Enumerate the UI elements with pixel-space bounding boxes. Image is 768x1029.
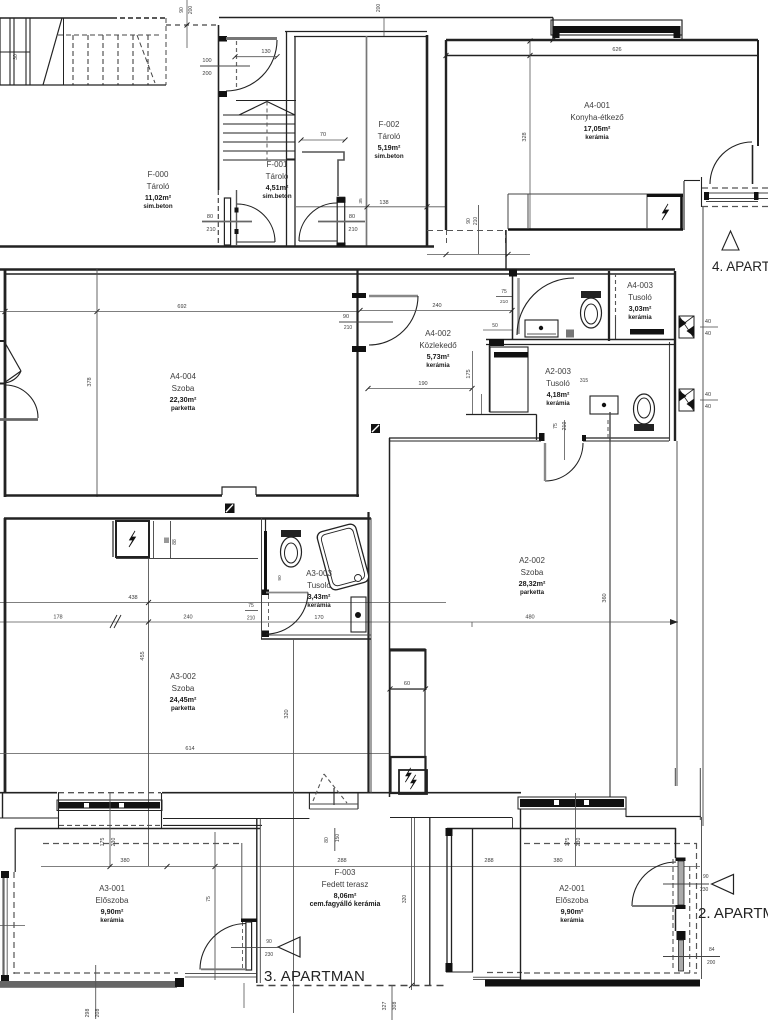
svg-text:F-002: F-002 (379, 120, 400, 129)
svg-text:208: 208 (95, 1009, 101, 1018)
svg-text:A2-003: A2-003 (545, 367, 571, 376)
svg-text:A3-003: A3-003 (306, 569, 332, 578)
svg-text:Előszoba: Előszoba (556, 896, 589, 905)
svg-text:80: 80 (324, 837, 330, 843)
svg-text:Fedett terasz: Fedett terasz (322, 880, 369, 889)
svg-text:80: 80 (349, 214, 355, 220)
svg-text:150: 150 (335, 834, 341, 843)
svg-text:kerámia: kerámia (546, 400, 570, 407)
svg-text:Szoba: Szoba (172, 384, 195, 393)
svg-text:88: 88 (172, 539, 178, 545)
svg-text:Tároló: Tároló (147, 182, 170, 191)
svg-text:308: 308 (392, 1002, 398, 1011)
svg-text:A2-001: A2-001 (559, 884, 585, 893)
svg-text:75: 75 (553, 423, 559, 429)
svg-text:190: 190 (418, 381, 427, 387)
svg-text:A3-002: A3-002 (170, 672, 196, 681)
svg-text:90: 90 (343, 314, 349, 320)
svg-text:210: 210 (500, 299, 508, 305)
svg-text:Közlekedő: Közlekedő (419, 341, 457, 350)
svg-text:230: 230 (700, 887, 709, 893)
svg-text:40: 40 (705, 404, 711, 410)
svg-text:378: 378 (87, 377, 93, 386)
svg-text:kerámia: kerámia (307, 602, 331, 609)
svg-text:parketta: parketta (171, 705, 196, 712)
svg-text:Tusoló: Tusoló (628, 293, 652, 302)
svg-text:90: 90 (179, 7, 185, 13)
svg-text:240: 240 (183, 615, 192, 621)
svg-text:sim.beton: sim.beton (262, 193, 291, 200)
svg-text:455: 455 (140, 651, 146, 660)
svg-text:2. APARTMAN: 2. APARTMAN (698, 905, 768, 922)
svg-text:A4-004: A4-004 (170, 372, 196, 381)
svg-text:75: 75 (206, 896, 212, 902)
svg-text:210: 210 (473, 217, 479, 226)
svg-text:178: 178 (53, 615, 62, 621)
svg-text:298: 298 (85, 1009, 91, 1018)
svg-text:626: 626 (612, 47, 621, 53)
svg-text:Tároló: Tároló (266, 172, 289, 181)
svg-text:60: 60 (404, 681, 410, 687)
svg-text:Szoba: Szoba (521, 568, 544, 577)
svg-text:Szoba: Szoba (172, 684, 195, 693)
svg-text:138: 138 (379, 200, 388, 206)
svg-text:40: 40 (705, 331, 711, 337)
svg-text:210: 210 (344, 325, 353, 331)
svg-text:210: 210 (562, 422, 568, 431)
svg-text:F-001: F-001 (267, 160, 288, 169)
svg-text:Tusoló: Tusoló (546, 379, 570, 388)
svg-text:Előszoba: Előszoba (96, 896, 129, 905)
svg-text:A4-002: A4-002 (425, 329, 451, 338)
svg-text:F-003: F-003 (335, 868, 356, 877)
svg-text:8,06m²: 8,06m² (334, 891, 357, 900)
svg-text:kerámia: kerámia (100, 917, 124, 924)
svg-text:75: 75 (501, 289, 507, 295)
svg-text:315: 315 (580, 378, 589, 384)
svg-text:40: 40 (705, 319, 711, 325)
svg-text:614: 614 (185, 746, 194, 752)
svg-text:288: 288 (337, 858, 346, 864)
svg-text:328: 328 (522, 132, 528, 141)
svg-text:210: 210 (348, 227, 357, 233)
svg-text:28,32m²: 28,32m² (519, 579, 546, 588)
svg-text:70: 70 (320, 132, 326, 138)
svg-text:3. APARTMAN: 3. APARTMAN (264, 968, 365, 985)
svg-text:175: 175 (466, 369, 472, 378)
svg-text:380: 380 (120, 858, 129, 864)
svg-text:90: 90 (466, 218, 472, 224)
svg-text:230: 230 (111, 838, 117, 847)
svg-text:A4-001: A4-001 (584, 101, 610, 110)
svg-text:5,73m²: 5,73m² (427, 352, 450, 361)
svg-text:parketta: parketta (171, 405, 196, 412)
svg-text:3,03m²: 3,03m² (629, 304, 652, 313)
svg-text:130: 130 (261, 49, 270, 55)
svg-text:4. APARTMAN: 4. APARTMAN (712, 259, 768, 274)
svg-text:A4-003: A4-003 (627, 281, 653, 290)
svg-text:90: 90 (703, 874, 709, 880)
svg-text:80: 80 (207, 214, 213, 220)
svg-text:230: 230 (576, 838, 582, 847)
svg-text:240: 240 (432, 303, 441, 309)
svg-text:17,05m²: 17,05m² (584, 124, 611, 133)
svg-text:170: 170 (314, 615, 323, 621)
svg-text:320: 320 (284, 709, 290, 718)
svg-text:9,90m²: 9,90m² (101, 907, 124, 916)
svg-text:50: 50 (492, 323, 498, 329)
svg-text:A2-002: A2-002 (519, 556, 545, 565)
svg-text:kerámia: kerámia (426, 362, 450, 369)
svg-text:9,90m²: 9,90m² (561, 907, 584, 916)
svg-text:90: 90 (277, 575, 283, 581)
svg-text:11,02m²: 11,02m² (145, 193, 172, 202)
svg-text:40: 40 (705, 392, 711, 398)
svg-text:22,30m²: 22,30m² (170, 395, 197, 404)
svg-text:sim.beton: sim.beton (374, 153, 403, 160)
svg-text:30: 30 (13, 54, 19, 60)
svg-text:sim.beton: sim.beton (143, 203, 172, 210)
svg-text:200: 200 (188, 6, 194, 15)
svg-text:230: 230 (265, 952, 274, 958)
svg-text:360: 360 (602, 593, 608, 602)
svg-text:210: 210 (206, 227, 215, 233)
svg-text:210: 210 (247, 616, 256, 622)
svg-text:5,19m²: 5,19m² (378, 143, 401, 152)
svg-text:4,18m²: 4,18m² (547, 390, 570, 399)
svg-text:35: 35 (358, 198, 364, 204)
svg-text:kerámia: kerámia (628, 314, 652, 321)
svg-text:200: 200 (202, 71, 211, 77)
svg-text:320: 320 (402, 895, 408, 904)
svg-text:F-000: F-000 (148, 170, 169, 179)
svg-text:175: 175 (100, 838, 106, 847)
svg-text:kerámia: kerámia (585, 134, 609, 141)
svg-text:kerámia: kerámia (560, 917, 584, 924)
svg-text:3,43m²: 3,43m² (308, 592, 331, 601)
svg-text:692: 692 (177, 304, 186, 310)
svg-text:200: 200 (707, 960, 716, 966)
svg-text:438: 438 (128, 595, 137, 601)
svg-text:100: 100 (202, 58, 211, 64)
svg-text:327: 327 (382, 1002, 388, 1011)
svg-text:Tároló: Tároló (378, 132, 401, 141)
svg-text:75: 75 (248, 603, 254, 609)
svg-text:380: 380 (553, 858, 562, 864)
svg-text:90: 90 (266, 939, 272, 945)
svg-text:175: 175 (565, 838, 571, 847)
svg-text:4,51m²: 4,51m² (266, 183, 289, 192)
svg-text:parketta: parketta (520, 589, 545, 596)
svg-text:Tusoló: Tusoló (307, 581, 331, 590)
svg-text:24,45m²: 24,45m² (170, 695, 197, 704)
svg-text:cem.fagyálló kerámia: cem.fagyálló kerámia (310, 901, 381, 908)
svg-text:200: 200 (376, 4, 382, 13)
svg-text:84: 84 (709, 947, 715, 953)
svg-text:Konyha-étkező: Konyha-étkező (570, 113, 624, 122)
svg-text:288: 288 (484, 858, 493, 864)
svg-text:A3-001: A3-001 (99, 884, 125, 893)
svg-text:480: 480 (525, 615, 534, 621)
